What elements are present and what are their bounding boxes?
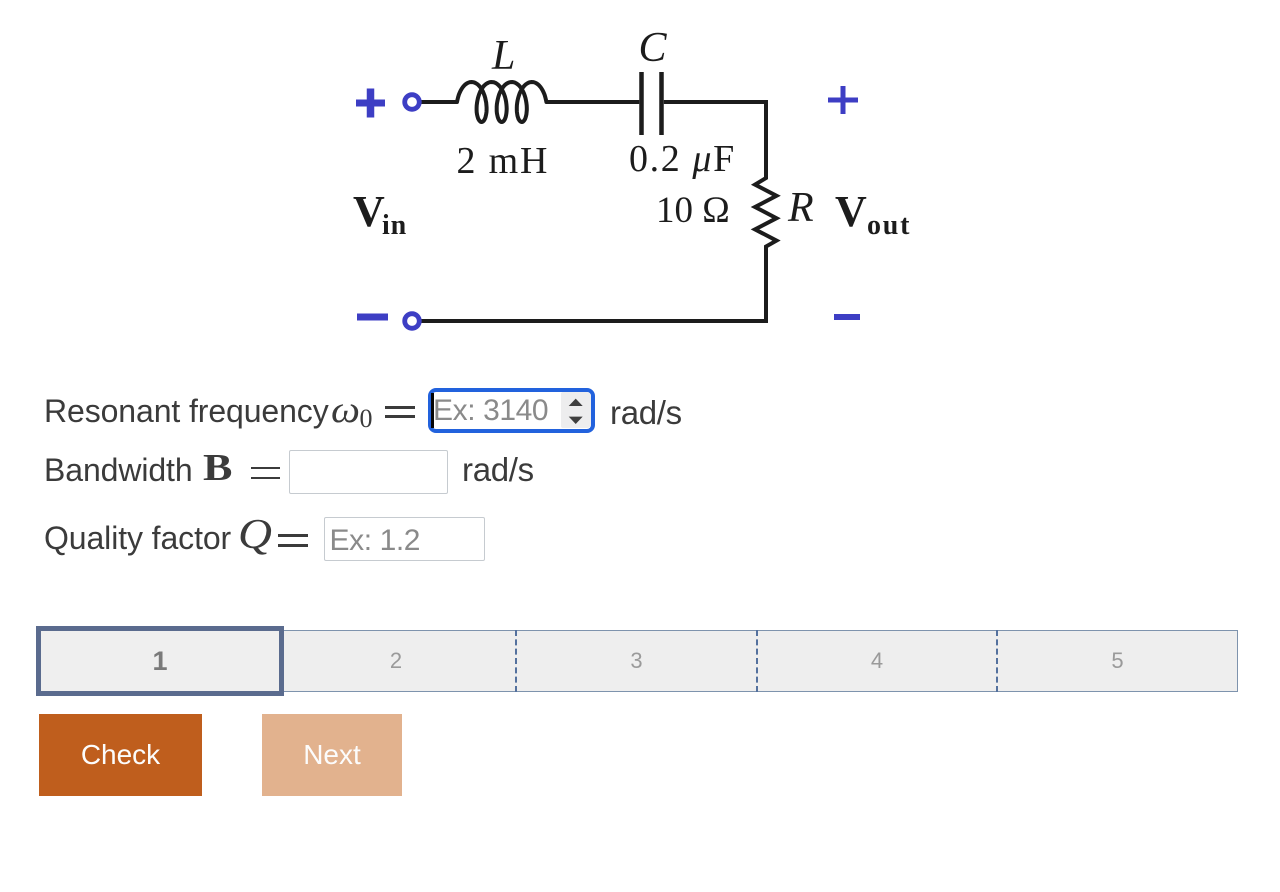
svg-text:V: V xyxy=(835,187,867,236)
svg-text:out: out xyxy=(867,210,911,241)
svg-text:in: in xyxy=(382,210,407,241)
svg-text:0.2 μF: 0.2 μF xyxy=(629,138,736,180)
svg-text:R: R xyxy=(787,185,814,231)
svg-text:V: V xyxy=(353,187,385,236)
svg-text:C: C xyxy=(639,25,668,71)
svg-text:2 mH: 2 mH xyxy=(457,140,550,182)
svg-text:L: L xyxy=(491,33,515,79)
svg-text:10 Ω: 10 Ω xyxy=(656,190,730,231)
